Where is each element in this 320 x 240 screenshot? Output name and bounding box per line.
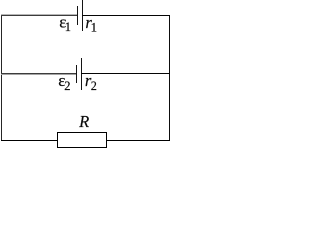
svg-text:2: 2 — [64, 79, 70, 93]
wire: bottom side, left segment — [1, 140, 57, 141]
battery E2 short plate (negative terminal) — [76, 65, 77, 83]
battery E1 long plate (positive terminal) — [82, 0, 83, 31]
battery E2 long plate (positive terminal) — [81, 58, 82, 90]
resistor R body (rectangle box) — [57, 132, 107, 148]
wire: top side, left segment — [1, 14, 77, 16]
svg-text:2: 2 — [91, 79, 97, 93]
wire: top side, right segment — [82, 15, 170, 16]
wire: bottom side, right segment — [106, 140, 170, 141]
wire: middle branch, left segment — [1, 73, 76, 75]
wire: middle branch, right segment — [81, 73, 170, 74]
svg-text:1: 1 — [91, 21, 97, 35]
battery E1 short plate (negative terminal) — [77, 6, 78, 25]
wire: left vertical branch — [1, 15, 2, 141]
svg-text:1: 1 — [65, 20, 71, 34]
svg-text:R: R — [78, 112, 89, 131]
wire: right vertical branch — [169, 15, 170, 141]
